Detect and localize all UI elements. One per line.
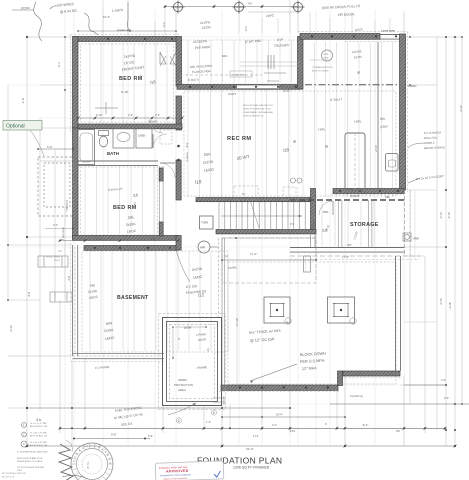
svg-text:BU: BU xyxy=(242,193,246,196)
svg-text:DBL: DBL xyxy=(323,210,329,214)
fixture: bath tub xyxy=(78,130,95,165)
svg-text:AREA: AREA xyxy=(178,388,186,392)
short dimension marks upper right xyxy=(310,59,330,61)
svg-text:PONV: PONV xyxy=(21,6,31,11)
red approval stamp xyxy=(155,461,224,480)
wall: walkout east corner xyxy=(298,37,304,90)
door arc: storage entry xyxy=(319,201,333,215)
svg-text:2'-6": 2'-6" xyxy=(441,378,446,382)
wall: slab south (hatched) xyxy=(221,385,338,390)
svg-text:FURN: FURN xyxy=(202,222,209,225)
leader: 8x16 cont note xyxy=(408,178,420,183)
pier below stair landing xyxy=(304,256,311,272)
svg-text:8'-0": 8'-0" xyxy=(150,237,155,241)
joist lines: bed rm 2 xyxy=(85,167,154,234)
freehand: deck post sketch xyxy=(264,55,286,85)
svg-text:5'-6": 5'-6" xyxy=(185,143,189,148)
dashed line mid-deck xyxy=(180,74,262,76)
svg-text:FNDRS AT ALL COL PADS: FNDRS AT ALL COL PADS xyxy=(17,460,43,463)
svg-text:W/DWS: W/DWS xyxy=(350,194,359,198)
dimension line: top xyxy=(165,6,298,8)
svg-text:BELOW GARAGE: BELOW GARAGE xyxy=(424,145,446,150)
svg-text:TRPL: TRPL xyxy=(354,119,362,124)
svg-text:AS IT W/ EXT. ON: AS IT W/ EXT. ON xyxy=(30,435,47,438)
svg-text:MO ST-RUE ALL FNDS UNI: MO ST-RUE ALL FNDS UNI xyxy=(2,472,26,475)
dashed brick-ledge insets xyxy=(71,32,408,392)
svg-text:2x6²Σ: 2x6²Σ xyxy=(355,27,363,32)
wall: bed rm 2 west (hatched) xyxy=(73,128,79,238)
svg-text:6 CMP WDW: 6 CMP WDW xyxy=(63,226,65,240)
svg-text:5'-0": 5'-0" xyxy=(47,145,53,149)
svg-text:14R&D: 14R&D xyxy=(408,84,416,88)
wall: rec rm north / walkout (hatched) xyxy=(177,85,302,90)
dimension row inside top of bed rm 1 xyxy=(78,30,176,32)
stairs: direction line with arrow xyxy=(221,215,302,217)
svg-text:2'-6": 2'-6" xyxy=(155,113,160,117)
optional label (green) xyxy=(3,121,42,131)
engineer seal (circle) xyxy=(71,443,113,480)
door jamb nodes on hall wall xyxy=(177,145,180,148)
centerline: dash-dot upper right xyxy=(305,84,400,86)
wall: bed rm 2 north xyxy=(73,161,158,165)
svg-text:ROHR 10 PB/05 BY T4L: ROHR 10 PB/05 BY T4L xyxy=(243,116,264,118)
joist lines: deck above rec rm xyxy=(188,40,292,83)
wall: basement south (double) xyxy=(73,354,165,359)
svg-text:MIN CONC SLAB OVER 5ML POLL: MIN CONC SLAB OVER 5ML POLL xyxy=(243,104,273,107)
svg-text:JMP: JMP xyxy=(58,251,63,253)
fixture: toilet xyxy=(99,131,109,136)
wall: slab east (double) xyxy=(396,256,401,371)
joist lines: storage xyxy=(322,201,387,246)
heavy dashed line south of storage north wall xyxy=(290,199,404,201)
wall: basement west (double) xyxy=(73,245,78,356)
svg-text:7'-0": 7'-0" xyxy=(57,62,61,68)
wall: closet jamb upper xyxy=(159,168,163,181)
svg-text:6'-10": 6'-10" xyxy=(96,237,103,241)
seal ring dots xyxy=(73,445,111,464)
door: bath xyxy=(153,134,167,148)
svg-text:W/D/WT: W/D/WT xyxy=(148,121,158,124)
svg-text:18'-4": 18'-4" xyxy=(276,413,283,417)
svg-text:SYP: SYP xyxy=(277,38,284,42)
lighter middle of rec north wall xyxy=(237,85,279,88)
svg-text:AS IS W/ EXT. ON: AS IS W/ EXT. ON xyxy=(30,444,48,447)
svg-text:D-50N0 CANT: D-50N0 CANT xyxy=(117,29,132,32)
svg-text:TO DRAIN LIGHT FTG: TO DRAIN LIGHT FTG xyxy=(312,66,333,69)
svg-text:9½": 9½" xyxy=(248,2,253,6)
svg-text:31'-0": 31'-0" xyxy=(439,298,443,305)
svg-text:9'-10x17: 9'-10x17 xyxy=(330,97,343,102)
svg-text:3'-0": 3'-0" xyxy=(444,396,449,400)
svg-text:9'-0(x17): 9'-0(x17) xyxy=(188,77,199,82)
svg-text:2: 2 xyxy=(134,202,136,206)
svg-text:13'2: 13'2 xyxy=(290,429,296,433)
svg-text:12" MAX: 12" MAX xyxy=(302,366,318,371)
svg-text:3'-0": 3'-0" xyxy=(162,22,166,28)
WTS circle symbol in rec rm xyxy=(322,50,333,61)
wall: closet jamb lower xyxy=(159,222,163,236)
storm room interior dimension marks xyxy=(172,327,174,358)
svg-text:JOIN: JOIN xyxy=(17,470,22,472)
svg-text:2'-6": 2'-6" xyxy=(128,113,133,117)
svg-text:5'-6": 5'-6" xyxy=(148,434,153,438)
svg-text:30'-0": 30'-0" xyxy=(448,302,452,309)
svg-text:3'-0": 3'-0" xyxy=(244,26,248,32)
svg-text:1: 1 xyxy=(140,74,142,78)
dashed boxes above stairs (BU) xyxy=(234,186,258,200)
svg-text:8 X 16 RIDGM: 8 X 16 RIDGM xyxy=(424,130,441,135)
svg-text:STORAGE: STORAGE xyxy=(350,222,379,228)
optional deck dashed rectangles xyxy=(38,157,73,216)
VPBR symbol right xyxy=(403,233,411,241)
svg-text:51'-0": 51'-0" xyxy=(246,447,254,451)
wall: connector xyxy=(176,236,181,251)
storm protection room walls xyxy=(163,318,222,406)
svg-text:4'-4": 4'-4" xyxy=(272,423,277,427)
svg-text:AS IS W/ EXT. ON: AS IS W/ EXT. ON xyxy=(30,425,48,428)
beam line in rec rm xyxy=(377,42,379,188)
svg-text:2x10²Δ: 2x10²Δ xyxy=(352,49,362,54)
leader: pow pbr note xyxy=(176,250,190,282)
svg-text:16'OC: 16'OC xyxy=(354,55,364,60)
wall: storage north (hatched) xyxy=(333,189,404,194)
svg-text:WALL FD'D: WALL FD'D xyxy=(424,136,438,140)
deck edge lines xyxy=(240,61,300,63)
svg-text:FRAME: FRAME xyxy=(228,265,238,270)
line: slab interior vertical xyxy=(236,238,238,384)
svg-text:25 TE: 25 TE xyxy=(86,461,90,469)
svg-text:1½: 1½ xyxy=(290,222,295,226)
svg-text:16'-0": 16'-0" xyxy=(103,15,110,19)
legend (bottom left) xyxy=(22,423,27,428)
svg-text:APPROVED: APPROVED xyxy=(166,469,189,474)
leader: ridgm wall note xyxy=(408,143,424,148)
dimension row above optional deck xyxy=(38,148,73,150)
wall: north-east exterior (hatched) xyxy=(300,34,380,40)
dimension marks: right columns xyxy=(445,36,447,38)
svg-text:5'-10": 5'-10" xyxy=(121,90,129,94)
svg-text:B/O CPY 4-20: B/O CPY 4-20 xyxy=(2,477,14,479)
svg-text:DOOR: DOOR xyxy=(198,337,207,342)
window wells (left side) xyxy=(38,102,118,302)
svg-text:TPPL: TPPL xyxy=(318,127,326,132)
svg-text:\PBR: \PBR xyxy=(413,237,419,241)
svg-text:17'-0": 17'-0" xyxy=(342,255,349,259)
wall: bath north (hatched) xyxy=(78,124,182,129)
svg-text:MIN: MIN xyxy=(106,321,113,326)
svg-text:1'-6": 1'-6" xyxy=(206,421,211,424)
svg-text:/8: /8 xyxy=(357,71,361,75)
storm room SE corner step detail xyxy=(213,396,224,405)
floor drain circle HPR xyxy=(198,241,210,253)
svg-text:/10: /10 xyxy=(322,228,328,233)
svg-text:1206 SQ FT FINISHED: 1206 SQ FT FINISHED xyxy=(233,466,270,470)
svg-text:DBL: DBL xyxy=(128,215,135,220)
svg-text:WDW: WDW xyxy=(184,325,192,330)
dashed slab upper region xyxy=(222,238,316,283)
wall: bed rm 2 closet xyxy=(160,166,164,236)
svg-text:/18: /18 xyxy=(194,179,202,186)
svg-text:WTS: WTS xyxy=(324,54,329,56)
anchor bolt dots on walls xyxy=(94,35,399,388)
dimension row above basement xyxy=(60,240,178,242)
joist lines: bed rm 1 xyxy=(90,43,167,123)
svg-text:PBL: PBL xyxy=(385,195,390,199)
svg-text:BLDR TO LIGHTS: BLDR TO LIGHTS xyxy=(312,71,329,73)
svg-text:-8'-4"-: -8'-4"- xyxy=(362,423,369,427)
svg-text:24'-0": 24'-0" xyxy=(374,145,378,152)
svg-text:22'-0": 22'-0" xyxy=(9,325,13,332)
dimension row above bath xyxy=(78,117,182,119)
svg-text:LINEN: LINEN xyxy=(138,135,146,138)
twin circle symbols near stair head xyxy=(291,178,296,183)
wall: north-east exterior (double) xyxy=(380,35,404,40)
door: bed rm 2 xyxy=(160,163,175,178)
closet doors (bifold) xyxy=(160,52,176,64)
svg-text:CANT: CANT xyxy=(228,92,236,96)
svg-text:20'-7¼": 20'-7¼" xyxy=(235,318,239,327)
svg-text:MIG: MIG xyxy=(222,54,228,58)
svg-text:9'-8": 9'-8" xyxy=(111,433,117,437)
svg-text:/8: /8 xyxy=(325,145,329,149)
wall: bed rm 2 south (hatched) xyxy=(73,236,179,241)
column pad B2 xyxy=(328,297,355,323)
svg-text:3'-0": 3'-0" xyxy=(53,224,58,227)
svg-text:REC RM: REC RM xyxy=(227,136,251,142)
linen closet xyxy=(136,129,152,149)
svg-text:BASEMENT: BASEMENT xyxy=(117,295,149,301)
joist lines: basement xyxy=(90,251,211,351)
fixture: bath sink counter xyxy=(113,129,134,149)
wall: slab south-east (hatched) xyxy=(343,371,400,376)
seal radial ticks xyxy=(72,444,113,480)
dimension line: slab top 17-2 xyxy=(222,259,316,261)
svg-text:14: 14 xyxy=(225,254,229,258)
svg-text:32'-0": 32'-0" xyxy=(447,212,451,219)
svg-text:#4 x 46' x 76" MID: #4 x 46' x 76" MID xyxy=(30,433,47,435)
joist lines: rec rm (lower part) xyxy=(188,90,289,197)
svg-text:#4 x 4' @ 72" MID: #4 x 4' @ 72" MID xyxy=(30,423,47,425)
svg-text:PUMP: PUMP xyxy=(324,58,330,60)
dashed: footing south of storage xyxy=(290,255,420,257)
wall: bed rm 1 north (hatched) xyxy=(73,37,178,42)
svg-text:LEVEL OPTIONER PLAT OF 3/4: LEVEL OPTIONER PLAT OF 3/4 xyxy=(243,108,271,111)
svg-text:DBL: DBL xyxy=(380,116,386,121)
svg-text:31'-0": 31'-0" xyxy=(439,212,443,219)
wall: storage partition 2 xyxy=(369,200,372,247)
svg-text:PB WLL GXNG: PB WLL GXNG xyxy=(46,257,60,259)
svg-text:3-50X0 PLUS: 3-50X0 PLUS xyxy=(232,75,246,77)
leader: optional label xyxy=(30,130,44,156)
wall: landing stub xyxy=(311,233,316,247)
svg-text:/8: /8 xyxy=(293,140,297,144)
joist lines: rec rm (upper right part) xyxy=(303,42,393,197)
svg-text:DOWN 2': DOWN 2' xyxy=(424,141,436,145)
column pad B1 xyxy=(264,297,290,323)
svg-text:(CBW: (CBW xyxy=(380,124,388,129)
wall: slab south step xyxy=(338,371,343,386)
wall: bed rm 1 east upper xyxy=(176,37,182,87)
dimension lines: bottom xyxy=(60,427,445,429)
svg-text:10'-0": 10'-0" xyxy=(283,89,290,93)
svg-text:6'-10": 6'-10" xyxy=(96,113,103,117)
svg-text:DO NOT ISOLATE FOR FDN: DO NOT ISOLATE FOR FDN xyxy=(17,466,45,469)
door: hall/rec xyxy=(150,120,163,133)
chimney / fireplace rounded box xyxy=(345,133,365,190)
svg-text:3 b: 3 b xyxy=(36,418,41,422)
wall: east exterior (hatched) xyxy=(400,34,406,190)
anchor bolt symbols along top dimension line xyxy=(172,1,185,14)
wall: stair north xyxy=(196,198,310,202)
svg-text:SDRM: SDRM xyxy=(178,378,187,382)
wall: storage partition 1 xyxy=(339,200,342,247)
wall: basement north (hatched) xyxy=(84,246,178,251)
svg-text:EPDXY BOLTS AND STUD: EPDXY BOLTS AND STUD xyxy=(17,457,43,460)
stairs: basement run xyxy=(219,202,305,230)
leader: block down note xyxy=(250,364,297,381)
svg-text:8'-0": 8'-0" xyxy=(27,292,31,297)
svg-text:2x6²Σ: 2x6²Σ xyxy=(266,13,275,18)
freehand: top-left sketch xyxy=(12,2,130,41)
svg-text:PROTECTION: PROTECTION xyxy=(174,383,193,387)
svg-text:/18: /18 xyxy=(133,193,139,198)
svg-text:PB/: PB/ xyxy=(90,283,96,288)
wall: bath east xyxy=(176,96,182,130)
svg-text:3" TECH AFTER ALL FACE UNIT: 3" TECH AFTER ALL FACE UNIT xyxy=(17,451,49,454)
svg-text:16'OC: 16'OC xyxy=(202,25,212,30)
signature scribble xyxy=(59,444,73,480)
svg-text:3'-10 OC+: 3'-10 OC+ xyxy=(65,200,69,212)
svg-text:HPR: HPR xyxy=(200,247,205,250)
svg-text:8'-0": 8'-0" xyxy=(67,276,71,281)
dimension marks: left column xyxy=(26,36,28,38)
svg-text:5-50X0 CANT: 5-50X0 CANT xyxy=(381,30,395,33)
water heater xyxy=(386,154,399,172)
furnace box xyxy=(200,216,214,229)
dashed: slab west ledge xyxy=(218,238,220,317)
svg-text:17'-2": 17'-2" xyxy=(250,252,257,256)
svg-text:W/T: W/T xyxy=(347,243,352,247)
svg-text:#4 x 78' x 36" MID: #4 x 78' x 36" MID xyxy=(30,442,47,444)
svg-text:9'8: 9'8 xyxy=(396,429,400,433)
svg-text:Optional: Optional xyxy=(6,124,25,130)
wall: stair landing east xyxy=(311,189,316,234)
wall: stair south xyxy=(216,230,316,234)
svg-text:P.SINK @: P.SINK @ xyxy=(186,152,188,162)
dashed: east ledge below storage xyxy=(404,190,406,256)
svg-text:4-(A/3x0 w): 4-(A/3x0 w) xyxy=(350,395,363,398)
svg-text:BATH: BATH xyxy=(107,151,119,156)
svg-text:17'2: 17'2 xyxy=(253,434,259,438)
svg-text:8'-4": 8'-4" xyxy=(21,98,25,104)
svg-text:CLEAN GRAVEL THICKNESS AND: CLEAN GRAVEL THICKNESS AND xyxy=(243,111,274,114)
wall: storage south (double) xyxy=(290,248,404,253)
svg-text:PB/VG: PB/VG xyxy=(54,260,61,262)
leader: 6 mil note to storm room xyxy=(168,403,196,415)
wall: hall east xyxy=(176,160,181,200)
svg-text:31'-0": 31'-0" xyxy=(459,105,463,112)
dashed shelf box in hall xyxy=(160,130,172,144)
wall: bed rm 1 / bath west (hatched) xyxy=(73,37,79,129)
wall: slab west edge (double) xyxy=(222,238,225,385)
